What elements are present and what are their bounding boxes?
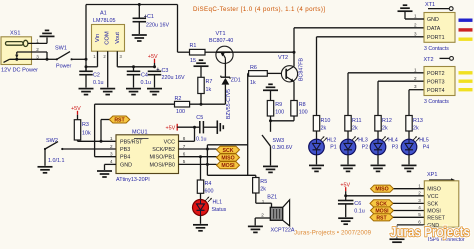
- title: DiSEqC-Tester: [193, 6, 325, 13]
- pin numbers XP1 1-6: [418, 183, 421, 224]
- capacitor C3 220u 16V: [148, 67, 185, 88]
- resistor R2 100 / wire to PB4: [95, 96, 226, 157]
- ground (below HL3): [341, 165, 356, 171]
- svg-text:1: 1: [110, 136, 113, 141]
- svg-text:3 Contacts: 3 Contacts: [424, 99, 449, 105]
- resistor R9 100: [267, 101, 284, 121]
- svg-text:1: 1: [36, 39, 39, 44]
- svg-text:MISO: MISO: [221, 156, 234, 162]
- ground (below C4): [126, 89, 141, 95]
- ground (below C3): [147, 89, 162, 95]
- wire: P2 net: [348, 73, 424, 116]
- LED HL1 Status (red): [193, 197, 227, 224]
- svg-text:P2: P2: [362, 145, 368, 151]
- svg-text:SCK: SCK: [223, 148, 234, 154]
- svg-text:C2: C2: [93, 73, 100, 79]
- svg-text:4: 4: [418, 205, 421, 210]
- svg-text:3 Contacts: 3 Contacts: [424, 46, 449, 52]
- svg-text:10k: 10k: [82, 131, 91, 137]
- wire: +5V output bus: [117, 65, 156, 68]
- capacitor C5 0.1u: [196, 115, 217, 143]
- svg-text:PORT2: PORT2: [427, 71, 445, 77]
- svg-text:6: 6: [183, 152, 186, 157]
- resistor R13 2k: [406, 116, 423, 140]
- cable marker XT1 yellow (PORT1): [459, 38, 473, 41]
- ground (below MCU GND): [97, 171, 112, 177]
- svg-text:XT2: XT2: [424, 57, 434, 63]
- tag SCK (XP1): [370, 200, 424, 208]
- svg-text:Status: Status: [212, 207, 227, 213]
- svg-text:0.1u: 0.1u: [141, 80, 152, 86]
- wire: XP1 VCC: [344, 194, 424, 197]
- svg-text:HL5: HL5: [419, 137, 429, 143]
- svg-text:C4: C4: [141, 73, 148, 79]
- cable marker XT2 yellow (PORT2): [459, 71, 473, 74]
- wire: VCC net: [177, 126, 200, 142]
- label: 12V DC Power: [1, 68, 38, 74]
- svg-text:RST: RST: [114, 118, 125, 124]
- ground (right of C5, sideways): [217, 120, 223, 134]
- svg-text:8: 8: [183, 136, 186, 141]
- watermark: Juras Projects: [390, 225, 470, 240]
- ground (below HL2): [309, 165, 324, 171]
- svg-text:Power: Power: [56, 64, 71, 70]
- svg-text:3: 3: [110, 152, 113, 157]
- svg-text:C6: C6: [354, 201, 361, 207]
- LED HL2 P1 (blue): [309, 136, 337, 164]
- svg-text:R9: R9: [275, 102, 282, 108]
- svg-text:LM78L05: LM78L05: [93, 18, 115, 24]
- wire: MCU pin 4 (GND): [105, 164, 117, 170]
- svg-text:PB5/RST: PB5/RST: [120, 139, 143, 145]
- svg-text:C3: C3: [162, 68, 169, 74]
- power +5V (at MCU VCC): [166, 124, 178, 132]
- tag RST: [101, 116, 130, 141]
- svg-text:+5V: +5V: [166, 126, 176, 132]
- svg-text:SW1: SW1: [55, 46, 67, 52]
- wire: P3 net: [378, 81, 424, 115]
- transistor VT2 BC847FB: [278, 51, 304, 101]
- svg-text:2k: 2k: [260, 186, 266, 192]
- regulator A1 LM78L05: [92, 11, 125, 52]
- tag MISO (XP1): [371, 185, 425, 193]
- svg-text:C5: C5: [196, 115, 203, 121]
- ground (below HL4): [371, 165, 386, 171]
- svg-text:PB4: PB4: [120, 155, 130, 161]
- svg-text:BZ1: BZ1: [267, 195, 277, 201]
- power +5V (at C3): [148, 54, 158, 67]
- svg-text:ATtiny13-20PI: ATtiny13-20PI: [116, 177, 150, 183]
- svg-text:COM: COM: [105, 31, 111, 45]
- svg-text:DATA: DATA: [427, 26, 441, 32]
- tag MOSI (MCU): [217, 162, 240, 170]
- capacitor C1 220u 16V: [133, 5, 170, 35]
- svg-text:SW3: SW3: [273, 138, 285, 144]
- svg-text:R13: R13: [413, 118, 423, 124]
- connector XS1 sleeve (pin 3): [4, 58, 48, 63]
- cable marker XT1 blue (GND): [459, 19, 473, 22]
- svg-text:MISO: MISO: [427, 187, 441, 193]
- svg-text:R7: R7: [206, 79, 213, 85]
- wire: XS1 pin2-pin3 join: [46, 52, 49, 61]
- svg-text:7: 7: [183, 144, 186, 149]
- svg-text:Juras Projects: Juras Projects: [390, 225, 470, 240]
- connector XT2 (3 Contacts): [414, 57, 455, 106]
- svg-text:VT2: VT2: [278, 55, 288, 61]
- svg-text:P4: P4: [423, 145, 429, 151]
- svg-text:2: 2: [414, 23, 417, 28]
- svg-text:XCPT22A: XCPT22A: [271, 228, 295, 234]
- svg-text:XP1: XP1: [427, 172, 437, 178]
- svg-text:PB3: PB3: [120, 147, 130, 153]
- svg-text:ZD1: ZD1: [231, 77, 241, 83]
- ground (below XP1 GND): [390, 239, 405, 245]
- svg-text:2: 2: [110, 144, 113, 149]
- wire: MCU pin 5 (MOSI): [179, 163, 217, 166]
- ground (below SW3): [263, 166, 278, 172]
- connector XS1 switch contact (pin 2): [15, 52, 47, 59]
- ground (above R9): [263, 84, 278, 100]
- svg-text:12V DC Power: 12V DC Power: [1, 68, 38, 74]
- svg-text:R8: R8: [299, 102, 306, 108]
- svg-text:VCC: VCC: [164, 139, 175, 145]
- svg-text:R4: R4: [205, 181, 212, 187]
- resistor R1 15: [178, 5, 217, 64]
- svg-text:R3: R3: [82, 122, 89, 128]
- svg-text:R5: R5: [260, 179, 267, 185]
- svg-text:1k: 1k: [206, 87, 212, 93]
- pin A1.1 (Vin): [93, 51, 97, 67]
- svg-text:0.1u: 0.1u: [354, 209, 365, 215]
- zener diode ZD1 BZV55-C7V5: [221, 63, 241, 119]
- cable marker XT2 yellow (PORT4): [459, 88, 473, 91]
- power +5V (at XP1): [340, 183, 350, 196]
- svg-text:2k: 2k: [352, 126, 358, 132]
- svg-text:0.1u: 0.1u: [93, 80, 104, 86]
- svg-text:MISO/PB1: MISO/PB1: [150, 155, 175, 161]
- svg-text:VT1: VT1: [216, 31, 226, 37]
- capacitor C4 0.1u: [127, 67, 151, 88]
- svg-text:2: 2: [36, 47, 39, 52]
- svg-text:2k: 2k: [413, 126, 419, 132]
- svg-text:3: 3: [418, 198, 421, 203]
- svg-text:PORT1: PORT1: [427, 35, 445, 41]
- ground (below BZ1): [248, 226, 263, 232]
- svg-text:MOSI: MOSI: [221, 163, 235, 169]
- svg-text:MOSI: MOSI: [427, 209, 441, 215]
- LED HL4 P3 (blue): [370, 136, 398, 164]
- svg-text:BZV55-C7V5: BZV55-C7V5: [226, 89, 232, 119]
- svg-text:1: 1: [414, 14, 417, 19]
- svg-text:100: 100: [176, 109, 185, 115]
- tag MOSI (XP1): [371, 207, 425, 215]
- wire: 12V rail: [85, 3, 178, 71]
- ground (below C2): [79, 89, 94, 95]
- power +5V (at R3): [71, 106, 81, 120]
- wire: P1 net: [317, 37, 425, 116]
- svg-text:RESET: RESET: [427, 215, 445, 221]
- svg-text:Vout: Vout: [115, 32, 121, 44]
- footer: Juras-Projects 2007/2009: [294, 230, 372, 237]
- wire: P4 net: [409, 90, 424, 116]
- pin A1.3 (Vout): [117, 51, 122, 67]
- ground (below C1): [132, 35, 147, 41]
- svg-text:1k: 1k: [250, 80, 256, 86]
- wire: XT1 PORT1 stub: [405, 18, 424, 20]
- svg-text:15: 15: [190, 58, 196, 64]
- svg-text:100: 100: [275, 109, 284, 115]
- cable marker XT2 yellow (PORT3): [459, 80, 473, 83]
- svg-text:220u 16V: 220u 16V: [146, 23, 169, 29]
- connector XT1 (3 Contacts): [414, 2, 455, 52]
- node: 12V input net / XS1 power jack: [1, 31, 32, 65]
- switch SW1 (Power): [47, 46, 86, 70]
- resistor R11 2k: [345, 116, 362, 140]
- svg-text:RST: RST: [376, 215, 387, 221]
- svg-text:4: 4: [110, 159, 113, 164]
- svg-text:220u 16V: 220u 16V: [162, 75, 185, 81]
- pin A1.2 (COM): [103, 51, 107, 87]
- wire: emitter junction: [269, 119, 294, 122]
- svg-text:3: 3: [414, 32, 417, 37]
- wire: MCU pin 7 (SCK): [179, 148, 217, 151]
- ground (above XS1 pin 1): [40, 30, 55, 43]
- svg-text:1: 1: [418, 183, 421, 188]
- svg-text:P1: P1: [330, 145, 336, 151]
- ground (below SW2): [38, 167, 53, 173]
- svg-text:SCK: SCK: [427, 201, 438, 207]
- svg-text:2k: 2k: [382, 126, 388, 132]
- svg-text:MOSI/PB0: MOSI/PB0: [150, 162, 175, 168]
- tag RST (XP1): [370, 214, 424, 222]
- svg-text:3: 3: [36, 55, 39, 60]
- svg-text:2k: 2k: [321, 126, 327, 132]
- svg-text:HL1: HL1: [213, 200, 223, 206]
- svg-text:DiSEqC-Tester [1.0 (4 ports),: DiSEqC-Tester [1.0 (4 ports), 1.1 (4 por…: [193, 6, 325, 13]
- resistor R5 2k: [253, 175, 268, 203]
- svg-text:2: 2: [414, 76, 417, 81]
- ground (XT1 GND pin): [398, 5, 425, 19]
- resistor R6 1k: [248, 65, 282, 175]
- LED HL5 P4 (blue): [401, 136, 429, 164]
- svg-text:1.0/1.1: 1.0/1.1: [48, 158, 65, 164]
- svg-text:+5V: +5V: [148, 54, 158, 60]
- wire: ISP loop box: [207, 145, 255, 176]
- svg-text:R11: R11: [352, 118, 362, 124]
- svg-text:HL4: HL4: [388, 137, 398, 143]
- cable marker XT1 red (DATA): [459, 28, 473, 31]
- ground (below C6): [338, 218, 353, 224]
- ground (below HL1): [193, 225, 208, 231]
- buzzer BZ1 XCPT22A: [255, 195, 295, 234]
- svg-text:5: 5: [418, 212, 421, 217]
- connector XP1 ISP6: [424, 172, 465, 243]
- svg-text:Vin: Vin: [95, 34, 101, 42]
- resistor R8 100: [291, 101, 308, 121]
- wire: XP1 GND: [397, 225, 424, 238]
- transistor VT1 BC807-40: [209, 31, 294, 63]
- svg-text:VCC: VCC: [427, 194, 438, 200]
- svg-text:PORT3: PORT3: [427, 79, 445, 85]
- svg-text:R12: R12: [382, 118, 392, 124]
- tag MISO (MCU): [217, 154, 240, 162]
- svg-text:SCK/PB2: SCK/PB2: [152, 147, 175, 153]
- svg-text:HL3: HL3: [358, 137, 368, 143]
- svg-text:XS1: XS1: [10, 31, 20, 37]
- LED HL3 P2 (blue): [340, 136, 368, 164]
- svg-text:Juras-Projects • 2007/2009: Juras-Projects • 2007/2009: [294, 230, 372, 237]
- capacitor C2 0.1u: [79, 67, 103, 88]
- svg-text:3: 3: [414, 84, 417, 89]
- svg-text:C1: C1: [147, 14, 154, 20]
- pin numbers MCU left 1-4: [110, 136, 113, 164]
- wire: MCU pin 6 (MISO): [179, 155, 217, 158]
- svg-text:R10: R10: [321, 118, 331, 124]
- wire: RST net to MCU pin 1: [78, 140, 117, 143]
- wire: MCU pin 3 (PB4): [95, 156, 116, 158]
- resistor R12 2k: [375, 116, 392, 140]
- ground (above R7): [194, 60, 209, 77]
- svg-text:0.1u: 0.1u: [196, 136, 207, 142]
- svg-text:BC807-40: BC807-40: [209, 38, 233, 44]
- svg-text:100: 100: [299, 109, 308, 115]
- switch SW3 (0.3/0.6V): [262, 121, 293, 166]
- pin numbers MCU right 8,7,6,5: [183, 136, 186, 164]
- resistor R4 600: [197, 157, 213, 200]
- ground (below A1 COM): [100, 89, 115, 95]
- capacitor C6 0.1u: [338, 196, 365, 217]
- MCU MCU1 ATtiny13-20PI: [116, 130, 179, 184]
- svg-text:BC847FB: BC847FB: [298, 58, 304, 81]
- tag SCK (MCU): [217, 146, 240, 154]
- resistor R7 1k: [198, 77, 213, 105]
- resistor R3 10k: [74, 120, 91, 142]
- svg-text:2: 2: [261, 213, 264, 218]
- svg-text:+5V: +5V: [71, 106, 81, 112]
- svg-text:MISO: MISO: [375, 187, 388, 193]
- ground (below HL5): [402, 165, 417, 171]
- svg-text:HL2: HL2: [327, 137, 337, 143]
- svg-text:1: 1: [414, 67, 417, 72]
- svg-text:XT1: XT1: [425, 2, 435, 8]
- wire: A1 input bus: [86, 66, 98, 68]
- resistor R10 2k: [313, 116, 330, 140]
- svg-text:A1: A1: [100, 11, 107, 17]
- svg-text:600: 600: [205, 188, 214, 194]
- svg-text:R1: R1: [190, 43, 197, 49]
- svg-text:PORT4: PORT4: [427, 88, 445, 94]
- pin numbers XS1 1,2,3: [36, 39, 39, 60]
- svg-text:P3: P3: [392, 145, 398, 151]
- connector XS1 tip pin (pin 1): [6, 40, 48, 46]
- svg-text:GND: GND: [120, 162, 132, 168]
- wire: DATA net to XT1: [294, 28, 424, 52]
- svg-text:2: 2: [418, 190, 421, 195]
- switch SW2 (1.0/1.1): [44, 138, 116, 166]
- svg-text:0.3/0.6V: 0.3/0.6V: [272, 145, 292, 151]
- svg-text:GND: GND: [427, 17, 439, 23]
- svg-text:5: 5: [183, 159, 186, 164]
